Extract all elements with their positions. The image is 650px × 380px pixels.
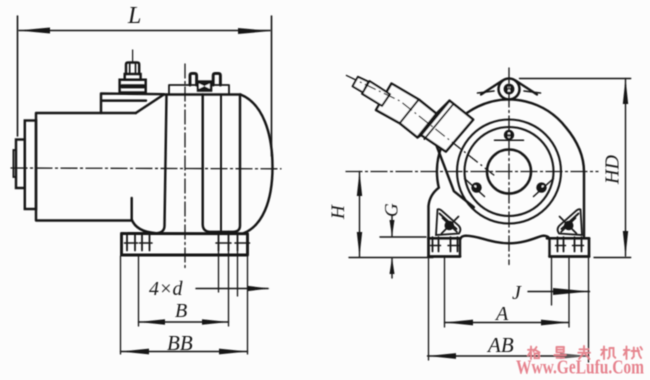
anchor lug right bbox=[558, 209, 582, 235]
anchor lug left bbox=[436, 209, 460, 235]
vent plug mid collar bbox=[125, 74, 141, 80]
bolt top bbox=[504, 130, 514, 140]
4xd leader arrowhead bbox=[247, 286, 270, 291]
HD dimension line bbox=[625, 79, 627, 257]
bracket left post bbox=[190, 73, 197, 85]
foot hole crossbars left bbox=[125, 242, 153, 244]
bearing boss outer ring bbox=[457, 120, 561, 224]
svg-text:AB: AB bbox=[486, 333, 514, 357]
dimension L extension line right bbox=[271, 16, 273, 156]
watermark chinese char ge bbox=[528, 347, 540, 360]
right view vertical center line bbox=[508, 68, 510, 265]
housing-motor fillet bbox=[132, 220, 156, 234]
eyebolt gusset right bbox=[516, 81, 538, 95]
motor fan cover step 1 bbox=[25, 121, 36, 210]
bracket middle block bbox=[197, 80, 213, 92]
svg-text:H: H bbox=[328, 204, 349, 220]
svg-text:HD: HD bbox=[602, 155, 624, 185]
base plate right view left foot top bbox=[429, 237, 461, 240]
vent plug base bbox=[120, 80, 146, 93]
J leader line bbox=[528, 291, 590, 293]
bracket right post bbox=[213, 73, 220, 85]
eyebolt boss circle bbox=[499, 79, 520, 100]
dimension L arrowhead right bbox=[238, 28, 271, 34]
eyebolt gusset left bbox=[481, 81, 503, 95]
shaft block connector top bbox=[436, 101, 449, 114]
eyebolt tick right bbox=[524, 91, 541, 93]
watermark chinese char xie bbox=[624, 347, 642, 360]
svg-text:G: G bbox=[382, 203, 403, 217]
dimension L line bbox=[19, 30, 270, 32]
bolt lower right bbox=[536, 182, 546, 192]
terminal box plate bbox=[101, 94, 164, 114]
dimension B arrowheads bbox=[139, 319, 166, 324]
shaft collar and ring bbox=[376, 84, 436, 138]
vent plug bolt head bbox=[126, 63, 139, 75]
crossbars right foot bbox=[556, 245, 584, 247]
extension line below plate B left bbox=[138, 256, 140, 326]
4xd leader line bbox=[196, 288, 268, 290]
anchor lug left inner diagonal bbox=[440, 214, 457, 230]
right view horizontal center line bbox=[346, 171, 598, 173]
anchor lug right inner diagonal bbox=[562, 214, 579, 230]
foot hole lines right group bbox=[219, 232, 238, 251]
foot hole lines left group bbox=[127, 235, 150, 251]
gear housing right bulge bbox=[241, 95, 273, 234]
dimension B line bbox=[139, 321, 229, 323]
bore circle bbox=[487, 150, 531, 194]
G top extension line bbox=[380, 236, 426, 238]
vent plug center line bbox=[132, 50, 134, 62]
shaft axis center line bbox=[346, 75, 495, 176]
anchor lug left bolt bbox=[445, 221, 455, 231]
foot hole crossbars right bbox=[216, 242, 250, 244]
watermark chinese char fu bbox=[578, 346, 590, 359]
svg-text:J: J bbox=[512, 282, 522, 304]
HD top extension line bbox=[520, 78, 631, 80]
shaft gland block inner line bbox=[424, 105, 452, 139]
left view vertical center line bbox=[184, 64, 186, 268]
svg-text:L: L bbox=[127, 3, 141, 29]
base plate right foot top bbox=[547, 237, 589, 240]
svg-text:Www.GeLufu.Com: Www.GeLufu.Com bbox=[516, 357, 644, 379]
bolt lower left bbox=[471, 182, 481, 192]
base plate bottoms bbox=[429, 255, 590, 258]
gearcase taper diagonal bbox=[136, 94, 164, 113]
base arch bbox=[460, 236, 550, 257]
watermark chinese char lu bbox=[555, 347, 566, 358]
dimension L arrowhead left bbox=[18, 28, 50, 34]
gear housing right wall bbox=[234, 95, 240, 232]
svg-text:BB: BB bbox=[167, 331, 193, 355]
vent plug base shading bbox=[122, 84, 144, 88]
left view horizontal center line bbox=[11, 167, 281, 170]
crossbars left foot bbox=[431, 245, 460, 247]
extension line B right bbox=[228, 251, 230, 326]
svg-text:4×d: 4×d bbox=[149, 278, 183, 300]
foot hole lines right view right foot bbox=[558, 237, 582, 251]
housing leg2 left wall bbox=[203, 95, 234, 232]
bracket middle bowtie bbox=[199, 84, 210, 89]
extension line hole a bbox=[218, 251, 220, 292]
watermark chinese char ji bbox=[601, 347, 615, 360]
extension line below plate BB left bbox=[120, 256, 122, 354]
housing flange line bbox=[220, 95, 222, 232]
HD bottom extension line bbox=[594, 257, 631, 259]
motor fan cover step 2 bbox=[16, 140, 25, 189]
anchor lug left bolt cross bbox=[442, 217, 459, 234]
dimension BB line bbox=[121, 351, 248, 353]
svg-text:B: B bbox=[175, 300, 187, 322]
vent plug bolt shank lines bbox=[130, 64, 136, 74]
eyebolt tick left bbox=[478, 91, 495, 93]
dimension BB arrowheads bbox=[121, 349, 150, 355]
H dimension line bbox=[359, 172, 361, 257]
boss band on housing top bbox=[169, 85, 229, 94]
anchor lug right bolt cross bbox=[560, 217, 577, 234]
AB dimension line bbox=[428, 355, 589, 357]
G dimension arrows bbox=[391, 216, 393, 236]
shaft tip bbox=[353, 77, 369, 93]
extension line BB right bbox=[247, 255, 249, 354]
H bottom extension line bbox=[349, 257, 433, 259]
shaft body bbox=[362, 81, 390, 106]
base plate edges bbox=[429, 238, 590, 256]
shaft gland block bbox=[421, 101, 473, 152]
J extension line bbox=[551, 258, 553, 305]
dimension L extension line left bbox=[17, 16, 19, 136]
gear housing top edge bbox=[164, 93, 241, 95]
shaft collar step line bbox=[400, 100, 419, 124]
motor body bbox=[36, 113, 136, 221]
extension line hole b bbox=[237, 251, 239, 296]
foot plate left view bbox=[122, 234, 248, 256]
foot hole lines right view left foot bbox=[433, 237, 458, 251]
housing outline with dome bbox=[429, 100, 585, 239]
motor end step 3 bbox=[13, 150, 16, 177]
AB extension lines bbox=[428, 257, 430, 361]
A extension lines bbox=[444, 258, 446, 327]
anchor lug right bolt bbox=[564, 221, 574, 231]
A dimension line bbox=[445, 322, 570, 324]
gear housing left wall bbox=[157, 95, 167, 234]
bearing boss inner ring bbox=[465, 127, 554, 216]
eyebolt inner bolt bbox=[504, 84, 515, 95]
shaft gland foot edge bbox=[430, 129, 474, 207]
shaft block connector bottom bbox=[418, 135, 422, 137]
svg-text:A: A bbox=[494, 303, 509, 325]
